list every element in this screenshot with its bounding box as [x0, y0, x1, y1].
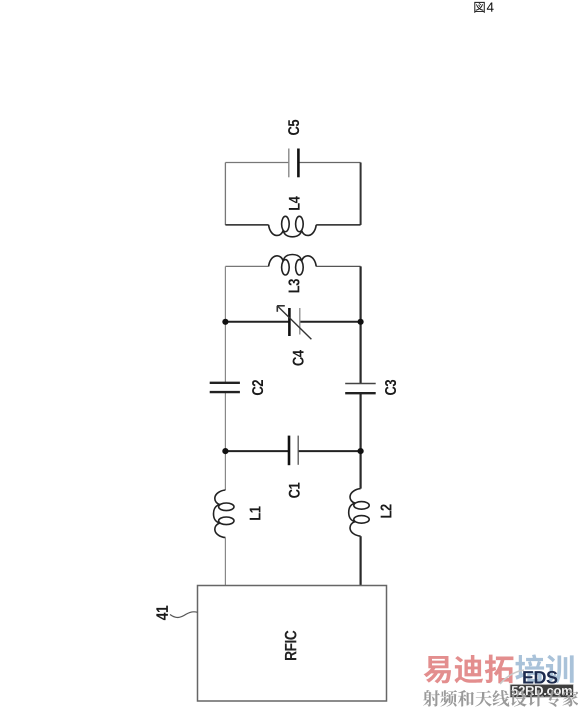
inductor L3	[269, 255, 317, 276]
wire tank top-left segment	[225, 162, 288, 164]
capacitor C5	[289, 149, 299, 178]
wire left column lower	[224, 392, 226, 490]
inductor L1	[214, 490, 235, 538]
node junction rail1-right	[358, 319, 364, 325]
inductor L4	[269, 216, 317, 237]
wire tank bottom-right segment	[316, 224, 360, 226]
node junction rail2-left	[222, 448, 228, 454]
label L3	[288, 279, 299, 292]
figure label 図4	[474, 2, 493, 13]
watermark logo EDS	[523, 671, 557, 684]
watermark logo 52RD.com bar	[510, 684, 574, 697]
leader line for 41	[170, 612, 198, 618]
capacitor C1	[289, 436, 298, 466]
wire right into RFIC	[360, 536, 362, 585]
label L4	[289, 196, 300, 210]
watermark gray text 射频和天线设计专家	[423, 690, 578, 707]
wire tank top-right segment	[298, 162, 360, 164]
label C4	[293, 350, 304, 366]
label 41	[156, 606, 168, 620]
label C2	[252, 380, 263, 395]
node junction rail2-right	[358, 448, 364, 454]
wire tank left edge	[224, 163, 226, 225]
inductor L2	[349, 489, 370, 537]
watermark blue text 培训	[515, 654, 573, 683]
wire L3 left segment	[225, 265, 268, 267]
wire left into RFIC	[224, 538, 226, 586]
wire tank bottom-left segment	[225, 224, 268, 226]
label L2	[380, 504, 391, 517]
RFIC box U41	[198, 586, 387, 702]
label RFIC	[285, 631, 297, 660]
wire right column lower	[360, 393, 362, 488]
label L1	[250, 506, 261, 519]
label C1	[289, 483, 300, 498]
wire rail2 left segment	[225, 450, 289, 452]
watermark logo swoosh	[500, 670, 524, 684]
wire L3 right segment	[316, 265, 360, 267]
wire rail1 right segment	[300, 321, 361, 323]
wire tank right edge	[360, 163, 362, 225]
wire right column upper	[360, 266, 362, 383]
wire rail2 right segment	[298, 450, 360, 452]
wire rail1 left segment	[225, 321, 289, 323]
watermark red text 易迪拓	[424, 655, 514, 684]
wire left column upper	[224, 266, 226, 382]
label C5	[288, 120, 299, 135]
capacitor C3	[345, 384, 376, 394]
label C3	[385, 380, 396, 395]
node junction rail1-left	[222, 319, 228, 325]
capacitor C2	[210, 383, 240, 392]
capacitor C4 (variable)	[277, 306, 311, 340]
